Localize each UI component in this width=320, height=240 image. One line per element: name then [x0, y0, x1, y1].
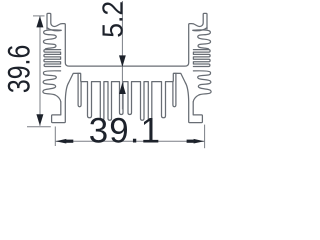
svg-text:39.6: 39.6 [2, 45, 37, 93]
svg-text:5.2: 5.2 [97, 1, 129, 38]
svg-text:39.1: 39.1 [89, 112, 161, 151]
